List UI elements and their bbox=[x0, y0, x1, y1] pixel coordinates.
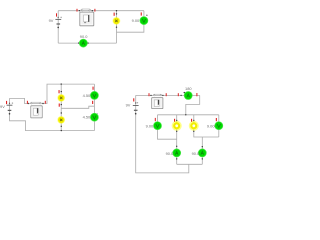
current marker: voltmeter V1 column bbox=[141, 12, 142, 15]
current marker: B3 bbox=[133, 98, 134, 101]
pin dot: lamp L3a top terminal bbox=[176, 120, 177, 121]
wire: circuit3 voltmeter V3b column bbox=[218, 115, 220, 137]
current marker: B2 bbox=[6, 101, 7, 104]
wire: circuit2 battery column and bottom rail bbox=[10, 98, 95, 130]
ammeter A1 bbox=[79, 39, 87, 47]
wire: circuit1 lamp branch vertical bbox=[116, 11, 118, 43]
wire: circuit3 ammeter bottom bus bbox=[177, 163, 203, 165]
current marker: after A3 bbox=[196, 93, 197, 96]
current marker: V3a column bbox=[155, 118, 156, 121]
current marker: lamp L2a top bbox=[59, 90, 60, 93]
pin dot: lamp L3b bottom terminal bbox=[193, 131, 194, 132]
switch widget button W1 bbox=[80, 12, 94, 26]
switch S1 (closed push switch) bbox=[79, 9, 93, 11]
pin dot: near V2b bbox=[97, 113, 98, 114]
current marker: S2 right bbox=[45, 101, 46, 104]
pin dot: ammeter A3b bottom terminal bbox=[202, 158, 203, 159]
battery B1 9V bbox=[55, 17, 61, 29]
pin dot: lamp L3b top terminal bbox=[193, 120, 194, 121]
current marker: V3b column bbox=[216, 118, 217, 121]
wire: circuit1 top rail bbox=[58, 10, 144, 12]
current marker: lamp L3a top bbox=[174, 119, 175, 122]
node dot: near A3 bbox=[184, 92, 185, 93]
node: circuit2 bottom rail junction bbox=[61, 130, 62, 131]
current marker: S3 right2 bbox=[178, 93, 179, 96]
svg-text:4.50: 4.50 bbox=[83, 115, 91, 120]
ammeter A3a bbox=[173, 149, 181, 157]
current marker: S3 right1 bbox=[166, 93, 167, 96]
current marker: voltmeter V2a top bbox=[93, 87, 94, 90]
pin dot: lamp L2a top terminal bbox=[61, 91, 62, 92]
pin dot: lamp L1 bottom terminal bbox=[116, 27, 117, 28]
svg-text:4.50: 4.50 bbox=[83, 93, 91, 98]
pin dot: lamp L1 top terminal bbox=[116, 13, 117, 14]
current marker: rail before switch bbox=[149, 93, 150, 96]
pin dot: lamp L2b top terminal bbox=[61, 112, 62, 113]
wire: circuit3 lamp L3b branch bbox=[194, 115, 219, 137]
current marker: S2 left bbox=[27, 101, 28, 104]
wire: circuit1 voltmeter loop bbox=[117, 11, 144, 33]
current marker: lamp branch top bbox=[114, 13, 115, 16]
pin dot: ammeter A3 left terminal bbox=[180, 95, 181, 96]
node: circuit2 rail junction at lamp branch bbox=[61, 83, 62, 84]
wire: circuit3 top rail bbox=[136, 94, 200, 96]
pin dot: ammeter A3a top terminal bbox=[176, 146, 177, 147]
svg-text:9V: 9V bbox=[49, 18, 54, 23]
ammeter A3 (main) bbox=[184, 92, 192, 100]
battery B3 9V bbox=[133, 102, 139, 114]
voltmeter V2a bbox=[90, 91, 98, 99]
svg-text:9.00: 9.00 bbox=[207, 123, 215, 128]
svg-text:9V: 9V bbox=[126, 103, 131, 108]
wire: circuit3 feed elbow to bus bbox=[186, 95, 200, 114]
node: bus feed junction bbox=[185, 114, 186, 115]
pin dot: lamp L2a bottom terminal bbox=[61, 104, 62, 105]
pin dot: lamp L2b bottom terminal bbox=[61, 126, 62, 127]
node: rail junction at lamp branch bbox=[116, 10, 117, 11]
lamp L3b (lit) bbox=[189, 121, 199, 131]
current marker: between lamps bbox=[59, 104, 60, 107]
voltmeter V1 bbox=[140, 15, 148, 25]
wire: circuit3 battery column and return rail bbox=[136, 95, 189, 172]
current marker: lamp L3b top bbox=[191, 119, 192, 122]
voltmeter V3b bbox=[215, 122, 223, 130]
svg-text:9.00: 9.00 bbox=[132, 18, 140, 23]
lamp L1 (lit) bbox=[113, 17, 121, 25]
current marker: voltmeter column mid bbox=[92, 101, 93, 104]
wire: circuit2 battery to switch bbox=[10, 84, 95, 103]
wire: circuit1 bottom rail bbox=[58, 42, 116, 44]
wire: circuit2 middle tap bbox=[61, 106, 94, 108]
svg-text:90.0: 90.0 bbox=[80, 34, 88, 39]
switch S2 (closed push switch) bbox=[28, 102, 44, 104]
wire: circuit3 lamp L3a branch bbox=[176, 115, 178, 165]
lamp L3a (lit) bbox=[172, 121, 182, 131]
switch widget button W3 bbox=[152, 98, 163, 109]
wire: circuit1 battery column bbox=[57, 11, 59, 43]
svg-text:9V: 9V bbox=[0, 104, 5, 109]
svg-text:90.0: 90.0 bbox=[192, 151, 200, 156]
battery B2 9V bbox=[7, 102, 14, 114]
lamp L2a (lit) bbox=[57, 94, 65, 102]
current marker: B1 bbox=[56, 13, 57, 16]
pin dot: ammeter A3a bottom terminal bbox=[176, 158, 177, 159]
pin dot: ammeter A3b top terminal bbox=[202, 146, 203, 147]
wire: circuit3 parallel bus bbox=[158, 114, 219, 116]
switch widget button W2 bbox=[31, 106, 42, 118]
svg-text:180: 180 bbox=[185, 86, 192, 91]
wire: circuit3 voltmeter V3a loop bbox=[158, 115, 177, 139]
wire: circuit2 voltmeter column bbox=[93, 84, 95, 131]
current marker: S1 right bbox=[94, 9, 95, 12]
voltmeter V3a bbox=[154, 122, 162, 130]
wire: circuit3 ammeter A3b feed bbox=[201, 137, 203, 164]
switch S3 (closed push switch) bbox=[150, 94, 163, 96]
lamp L2b (lit) bbox=[57, 116, 65, 124]
pin dot: ammeter A1 left terminal bbox=[78, 42, 79, 43]
pin dot: ammeter A1 right terminal bbox=[87, 42, 88, 43]
wire: circuit2 lamp branch vertical bbox=[60, 84, 62, 131]
current marker: S1 left bbox=[77, 9, 78, 12]
voltmeter V2b bbox=[90, 113, 98, 121]
svg-text:90.0: 90.0 bbox=[166, 151, 174, 156]
svg-text:9.00: 9.00 bbox=[146, 123, 154, 128]
pin dot: lamp L3a bottom terminal bbox=[176, 131, 177, 132]
ammeter A3b bbox=[198, 149, 206, 157]
